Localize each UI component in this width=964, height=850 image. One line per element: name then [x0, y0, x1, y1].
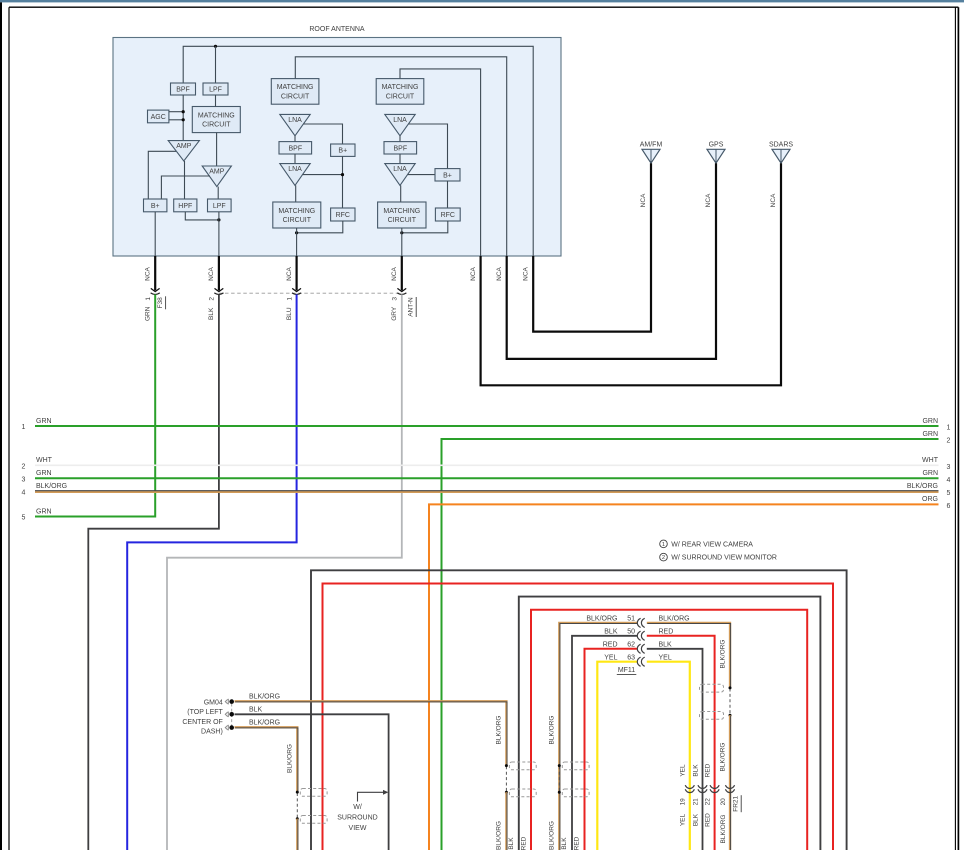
wire AMP2 to LPF — [217, 187, 219, 199]
svg-text:63: 63 — [627, 654, 635, 661]
svg-text:BLK: BLK — [249, 706, 263, 713]
svg-text:BLK/ORG: BLK/ORG — [586, 616, 617, 623]
wire inline dashed GM04 pin3 riser — [296, 793, 298, 818]
wire BPF to LNA2 — [294, 154, 296, 164]
wire tap LNA2 junction — [303, 174, 343, 176]
wire RFC down join output (SDARS) — [402, 221, 448, 233]
page border left outer — [0, 2, 2, 850]
wire F38 connector dashed gang line — [219, 292, 402, 294]
svg-text:3: 3 — [947, 464, 951, 471]
connector FR21 terminals pin 22 — [710, 785, 719, 788]
svg-text:LNA: LNA — [288, 117, 302, 124]
wire MF11 left YEL pin 63 — [597, 662, 637, 850]
connector GM04 pin 1 — [225, 699, 227, 704]
wire BLU from F38 pin 1 — [127, 294, 296, 850]
svg-text:RED: RED — [521, 836, 528, 850]
inline connector boxes MF11 left riser — [562, 762, 589, 770]
svg-text:CIRCUIT: CIRCUIT — [386, 93, 415, 100]
svg-text:FR21: FR21 — [733, 795, 740, 811]
svg-text:BLK: BLK — [208, 307, 215, 320]
svg-text:AMP: AMP — [209, 169, 225, 176]
wire B+ to RFC (GPS) — [342, 156, 344, 208]
wire tap AMP2 to B+ — [161, 176, 210, 199]
svg-text:WHT: WHT — [922, 457, 939, 464]
wire HPF join LPF output — [185, 212, 219, 220]
svg-text:51: 51 — [627, 616, 635, 623]
wire NCA stub pin 3 — [401, 256, 403, 290]
svg-text:SDARS: SDARS — [769, 142, 793, 149]
svg-text:NCA: NCA — [470, 266, 477, 280]
svg-text:6: 6 — [947, 503, 951, 510]
svg-text:MATCHING: MATCHING — [382, 84, 419, 91]
svg-text:LPF: LPF — [213, 203, 226, 210]
wire NCA coax to AM/FM antenna — [533, 163, 651, 331]
svg-text:3: 3 — [392, 297, 399, 301]
svg-text:W/ SURROUND VIEW MONITOR: W/ SURROUND VIEW MONITOR — [671, 555, 777, 562]
svg-text:GRN: GRN — [922, 418, 938, 425]
connector terminal pin 2 — [215, 288, 224, 291]
inline connector boxes right harness — [700, 684, 724, 692]
wire LNA2 to matching circuit U3 — [295, 185, 297, 202]
svg-text:19: 19 — [680, 798, 687, 806]
svg-text:NCA: NCA — [522, 266, 529, 280]
svg-text:VIEW: VIEW — [349, 825, 367, 832]
wire MF11 right BLK to FR21 pin 21 — [647, 649, 703, 850]
wire SDARS feed: top run to right riser — [400, 69, 481, 256]
svg-text:DASH): DASH) — [201, 729, 223, 736]
wire BPF to AMP through AGC taps — [182, 95, 184, 141]
wire MF11 right BLK/ORG lower to FR21 pin 20 — [729, 715, 731, 850]
wire SDARS output down — [401, 228, 403, 256]
svg-text:GM04: GM04 — [204, 699, 223, 706]
svg-text:RFC: RFC — [336, 212, 350, 219]
svg-text:BLK/ORG: BLK/ORG — [287, 744, 294, 773]
connector GM04 pin 3 — [225, 725, 227, 730]
node GPS output junction — [295, 231, 298, 234]
wire NCA coax to SDARS antenna — [481, 163, 781, 385]
amplifier LNA3 — [385, 114, 415, 135]
wire GRN from F38 pin 1 to left pin 5 — [35, 294, 155, 516]
svg-text:W/ REAR VIEW CAMERA: W/ REAR VIEW CAMERA — [671, 542, 753, 549]
roof antenna module box — [113, 38, 561, 257]
svg-text:1: 1 — [145, 297, 152, 301]
svg-text:20: 20 — [720, 798, 727, 806]
svg-text:BLK/ORG: BLK/ORG — [719, 640, 726, 669]
svg-text:1: 1 — [662, 542, 665, 548]
svg-text:AMP: AMP — [176, 143, 192, 150]
svg-text:BLK/ORG: BLK/ORG — [719, 743, 726, 772]
filter BPF (AM/FM) — [171, 83, 196, 95]
connector terminal pin 1 — [151, 288, 160, 291]
svg-text:CIRCUIT: CIRCUIT — [281, 93, 310, 100]
svg-text:BLK/ORG: BLK/ORG — [249, 694, 280, 701]
wire AGC tap upper — [169, 111, 183, 113]
svg-text:BLK/ORG: BLK/ORG — [907, 483, 938, 490]
node junction top run — [214, 45, 217, 48]
svg-text:WHT: WHT — [36, 457, 53, 464]
node inline dot upper — [505, 764, 508, 767]
svg-text:ROOF ANTENNA: ROOF ANTENNA — [309, 26, 365, 33]
amplifier LNA2 — [280, 164, 310, 186]
wire GPS output down — [296, 228, 298, 256]
matching circuit U4 — [376, 79, 424, 105]
matching circuit U2 — [271, 79, 319, 105]
wire GRY from ANT-N pin 3 — [167, 294, 402, 850]
svg-text:NCA: NCA — [705, 193, 712, 207]
wire NCA stub pin 1 — [296, 256, 298, 290]
svg-text:21: 21 — [692, 798, 699, 806]
svg-text:BLK: BLK — [561, 837, 568, 850]
wire WHT pin2 to pin3 — [35, 464, 939, 466]
svg-text:BLK: BLK — [692, 764, 699, 777]
svg-text:NCA: NCA — [208, 266, 215, 280]
svg-text:B+: B+ — [443, 172, 452, 179]
svg-text:RED: RED — [704, 763, 711, 777]
wire GRN pin1 to pin1 — [35, 425, 939, 427]
svg-text:MF11: MF11 — [618, 667, 635, 674]
svg-text:GRY: GRY — [391, 306, 398, 321]
svg-text:2: 2 — [209, 297, 216, 301]
wire NCA stub pin 2 — [218, 256, 220, 290]
svg-text:GRN: GRN — [922, 431, 938, 438]
wire AMP1 to HPF — [184, 161, 186, 199]
wire GM04 pin1 riser lower — [505, 792, 507, 850]
svg-text:NCA: NCA — [391, 266, 398, 280]
svg-text:GPS: GPS — [709, 142, 724, 149]
wire GM04 pin2 BLK — [235, 714, 389, 850]
page border right inner — [954, 7, 956, 850]
svg-text:BLK/ORG: BLK/ORG — [36, 483, 67, 490]
amplifier AMP2 — [202, 166, 231, 187]
svg-text:RED: RED — [704, 813, 711, 827]
wire BLK/ORG pin4 to pin5 — [35, 491, 939, 493]
wire NCA coax to GPS antenna — [507, 163, 716, 359]
svg-text:4: 4 — [22, 489, 26, 496]
svg-text:3: 3 — [22, 476, 26, 483]
wire LNA3 to BPF (SDARS) — [399, 136, 401, 142]
svg-text:RED: RED — [659, 628, 674, 635]
svg-text:BLK: BLK — [692, 813, 699, 826]
filter BPF (GPS) — [279, 142, 312, 154]
wire BLK from F38 pin 2 — [88, 294, 219, 850]
amplifier LNA1 — [280, 114, 310, 135]
svg-text:2: 2 — [22, 463, 26, 470]
svg-text:CIRCUIT: CIRCUIT — [202, 122, 231, 129]
svg-text:1: 1 — [286, 297, 293, 301]
node inline dot lower MF11 left — [558, 791, 561, 794]
svg-text:5: 5 — [947, 490, 951, 497]
wire MF11 right YEL to FR21 pin 19 — [647, 662, 690, 850]
wire inline dashed GM04 pin1 riser — [505, 766, 507, 791]
svg-text:LNA: LNA — [393, 166, 407, 173]
svg-text:B+: B+ — [338, 148, 347, 155]
antenna AM/FM — [640, 142, 663, 164]
wire tap LNA3 to B+ (SDARS) — [409, 124, 448, 169]
wire MF11 right BLK/ORG inline dashed — [729, 689, 731, 715]
node AGC tap lower — [182, 118, 185, 121]
svg-text:BLK/ORG: BLK/ORG — [549, 821, 556, 850]
page border left inner — [8, 7, 10, 850]
svg-text:NCA: NCA — [144, 266, 151, 280]
wire RED loop inner — [531, 610, 807, 850]
page border top — [9, 6, 958, 8]
wire GM04 pin1 BLK/ORG to riser — [235, 701, 507, 765]
svg-text:2: 2 — [662, 555, 665, 561]
svg-text:B+: B+ — [151, 203, 160, 210]
svg-text:BLK/ORG: BLK/ORG — [496, 821, 503, 850]
svg-text:GRN: GRN — [144, 306, 151, 321]
connector terminal pin 3 — [397, 288, 406, 291]
node AGC tap upper — [182, 110, 185, 113]
svg-text:CENTER OF: CENTER OF — [182, 719, 222, 726]
wire stub to LPF — [215, 46, 217, 83]
svg-text:BLK: BLK — [508, 837, 515, 850]
svg-text:YEL: YEL — [680, 764, 687, 777]
svg-text:GRN: GRN — [36, 470, 52, 477]
svg-text:YEL: YEL — [680, 813, 687, 826]
svg-text:AGC: AGC — [151, 114, 166, 121]
wire LNA4 to matching circuit U5 — [400, 185, 402, 202]
wire tap LNA4 to B+ side — [408, 174, 435, 176]
power B+ (AM/FM) — [144, 199, 167, 212]
svg-text:GRN: GRN — [922, 470, 938, 477]
svg-text:RED: RED — [603, 641, 618, 648]
wire inline dashed MF11 left riser — [558, 766, 560, 791]
svg-text:BPF: BPF — [393, 145, 407, 152]
svg-text:GRN: GRN — [36, 508, 52, 515]
node inline connector dot upper right — [729, 686, 732, 689]
wire ORG pin6 riser — [429, 504, 939, 850]
svg-text:YEL: YEL — [659, 654, 672, 661]
svg-text:MATCHING: MATCHING — [277, 84, 314, 91]
svg-text:SURROUND: SURROUND — [337, 814, 377, 821]
svg-text:GRN: GRN — [36, 418, 52, 425]
wire B+ to RFC (SDARS) — [447, 181, 449, 208]
node inline dot upper MF11 left — [558, 764, 561, 767]
wire GRN pin2 riser — [442, 439, 939, 850]
svg-text:CIRCUIT: CIRCUIT — [283, 217, 312, 224]
svg-text:ORG: ORG — [922, 496, 938, 503]
wire tap AMP1 to B+ — [148, 151, 176, 199]
wire BLK loop outer — [311, 570, 847, 850]
wire matching circuit to AMP2 — [216, 133, 218, 166]
filter LPF (AM/FM) — [203, 83, 228, 95]
svg-text:62: 62 — [627, 641, 635, 648]
node inline dot lower — [505, 791, 508, 794]
note 1 W/ REAR VIEW CAMERA — [660, 540, 754, 548]
wire MF11 right BLK/ORG upper — [647, 623, 730, 688]
antenna SDARS — [769, 142, 793, 164]
wire MF11 left BLK pin 50 — [572, 636, 637, 850]
wire AGC tap lower — [169, 119, 183, 121]
wire GPS feed: top run to right riser — [295, 57, 506, 256]
wire BLK loop inner — [519, 597, 821, 850]
wire B+ down to connector — [154, 212, 156, 256]
inline connector boxes GM04 pin1 riser — [509, 762, 536, 770]
wire LNA1 to BPF — [294, 136, 296, 142]
note W/ SURROUND VIEW with arrow — [337, 790, 388, 832]
svg-text:F38: F38 — [157, 297, 164, 309]
svg-text:50: 50 — [627, 628, 635, 635]
amplifier LNA4 — [385, 164, 415, 186]
svg-text:BLK/ORG: BLK/ORG — [659, 616, 690, 623]
wire tap LNA1 to B+ (GPS) — [304, 124, 343, 144]
svg-text:BPF: BPF — [176, 87, 190, 94]
connector MF11 terminals pin 50 — [637, 631, 640, 640]
wire RED loop outer — [323, 584, 834, 850]
svg-text:RED: RED — [574, 836, 581, 850]
wire GM04 pin3 BLK/ORG to riser — [235, 727, 298, 792]
svg-text:LNA: LNA — [393, 117, 407, 124]
filter BPF (SDARS) — [384, 142, 417, 154]
note 2 W/ SURROUND VIEW MONITOR — [660, 553, 777, 561]
svg-text:NCA: NCA — [770, 193, 777, 207]
filter HPF — [174, 199, 197, 212]
wire MF11 left RED pin 62 — [585, 649, 638, 850]
wire LPF output down — [218, 212, 220, 256]
svg-text:MATCHING: MATCHING — [278, 208, 315, 215]
svg-text:BLK/ORG: BLK/ORG — [549, 716, 556, 745]
svg-text:BLK/ORG: BLK/ORG — [720, 815, 727, 844]
node SDARS output junction — [400, 231, 403, 234]
page border right outer — [957, 7, 959, 850]
connector MF11 terminals pin 62 — [637, 644, 640, 653]
svg-text:YEL: YEL — [604, 654, 617, 661]
wire AM/FM feed: top run to right riser — [183, 46, 533, 256]
svg-text:RFC: RFC — [441, 212, 455, 219]
svg-text:NCA: NCA — [640, 193, 647, 207]
choke RFC (GPS) — [331, 208, 355, 221]
filter LPF output — [208, 199, 232, 212]
svg-text:22: 22 — [704, 798, 711, 806]
connector GM04 pin 2 — [225, 712, 227, 717]
svg-text:LNA: LNA — [288, 166, 302, 173]
window top bar — [0, 0, 964, 2]
connector terminal pin 1 — [292, 288, 301, 291]
svg-text:1: 1 — [947, 425, 951, 432]
matching circuit U5 — [378, 202, 426, 228]
connector FR21 terminals pin 20 — [725, 785, 734, 788]
svg-text:1: 1 — [22, 424, 26, 431]
amplifier AMP1 — [168, 141, 199, 161]
svg-text:BLK/ORG: BLK/ORG — [496, 716, 503, 745]
power B+ (SDARS) — [435, 169, 460, 181]
svg-text:CIRCUIT: CIRCUIT — [388, 217, 417, 224]
wire GRN pin3 to pin4 — [35, 477, 939, 479]
svg-text:BLK: BLK — [659, 641, 673, 648]
svg-text:LPF: LPF — [209, 87, 222, 94]
svg-text:MATCHING: MATCHING — [383, 208, 420, 215]
choke RFC (SDARS) — [435, 208, 460, 221]
svg-text:MATCHING: MATCHING — [198, 112, 235, 119]
wire BPF to LNA4 — [399, 154, 401, 164]
matching circuit U3 — [273, 202, 321, 228]
matching circuit U1 — [192, 107, 240, 133]
svg-text:AM/FM: AM/FM — [640, 142, 663, 149]
wire NCA stub pin 1 — [154, 256, 156, 290]
connector MF11 terminals pin 51 — [637, 618, 640, 627]
wire RFC down join output (GPS) — [297, 221, 343, 233]
svg-text:BLK: BLK — [604, 628, 618, 635]
connector FR21 terminals pin 21 — [698, 785, 707, 788]
svg-text:ANT-N: ANT-N — [407, 297, 414, 317]
block AGC — [148, 110, 169, 123]
svg-text:NCA: NCA — [286, 266, 293, 280]
connector GM04 text block — [182, 699, 223, 735]
antenna GPS — [707, 142, 725, 164]
node inline dot upper pin3 — [296, 791, 299, 794]
node LPF/HPF junction — [217, 218, 220, 221]
svg-text:HPF: HPF — [178, 203, 192, 210]
svg-text:BLK/ORG: BLK/ORG — [249, 720, 280, 727]
svg-text:BLU: BLU — [286, 307, 293, 320]
node B+/LNA2 tap junction — [341, 173, 344, 176]
connector GM04 pin gang dashed line — [231, 704, 233, 727]
node inline dot lower pin3 — [296, 817, 299, 820]
power B+ (GPS) — [331, 144, 355, 156]
node inline connector dot lower right — [729, 714, 732, 717]
svg-text:5: 5 — [22, 515, 26, 522]
wire GM04 pin3 riser lower — [296, 819, 298, 850]
connector MF11 terminals pin 63 — [637, 657, 640, 666]
svg-text:BPF: BPF — [288, 145, 302, 152]
inline connector boxes GM04 pin3 riser — [300, 789, 327, 797]
svg-text:4: 4 — [947, 477, 951, 484]
wire MF11 right RED to FR21 pin 22 — [647, 636, 715, 850]
svg-text:W/: W/ — [353, 804, 362, 811]
connector FR21 terminals pin 19 — [685, 785, 694, 788]
svg-text:(TOP LEFT: (TOP LEFT — [187, 709, 223, 716]
wire MF11 left BLK/ORG pin 51 — [559, 623, 637, 850]
svg-text:2: 2 — [947, 438, 951, 445]
svg-text:NCA: NCA — [496, 266, 503, 280]
wire LPF to matching circuit — [215, 95, 217, 107]
